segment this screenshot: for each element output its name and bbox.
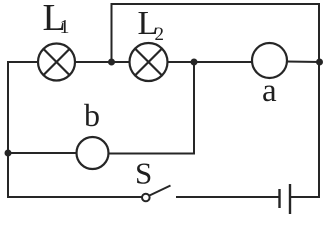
svg-text:2: 2 — [155, 24, 165, 45]
ammeter a — [252, 43, 287, 78]
wire top branch vertical — [111, 4, 113, 62]
wire right vertical — [318, 4, 320, 197]
battery — [280, 184, 291, 214]
wire bottom left to switch — [8, 196, 142, 198]
wire ammeter a to right — [287, 61, 319, 64]
wire switch to battery — [177, 196, 279, 198]
switch S — [142, 186, 171, 202]
svg-text:1: 1 — [60, 16, 70, 38]
wire branch down from node — [109, 62, 195, 154]
lamp L1 — [38, 44, 75, 81]
junction node left b row — [5, 150, 12, 157]
wire battery to right — [290, 196, 319, 198]
wire L2 to ammeter a — [168, 61, 253, 63]
junction node between L2 and a — [191, 59, 198, 66]
lamp L2 — [130, 43, 168, 81]
wire meter b left — [8, 152, 77, 154]
wire L1 to L2 — [75, 61, 130, 63]
junction node between L1 and L2 — [108, 59, 115, 66]
wire left vertical — [7, 62, 9, 197]
svg-text:S: S — [135, 156, 152, 191]
wire top — [112, 3, 319, 5]
wire main row left — [8, 61, 38, 63]
junction node right — [316, 59, 323, 66]
svg-text:a: a — [262, 73, 277, 109]
svg-text:b: b — [84, 97, 100, 133]
meter b — [77, 137, 109, 169]
